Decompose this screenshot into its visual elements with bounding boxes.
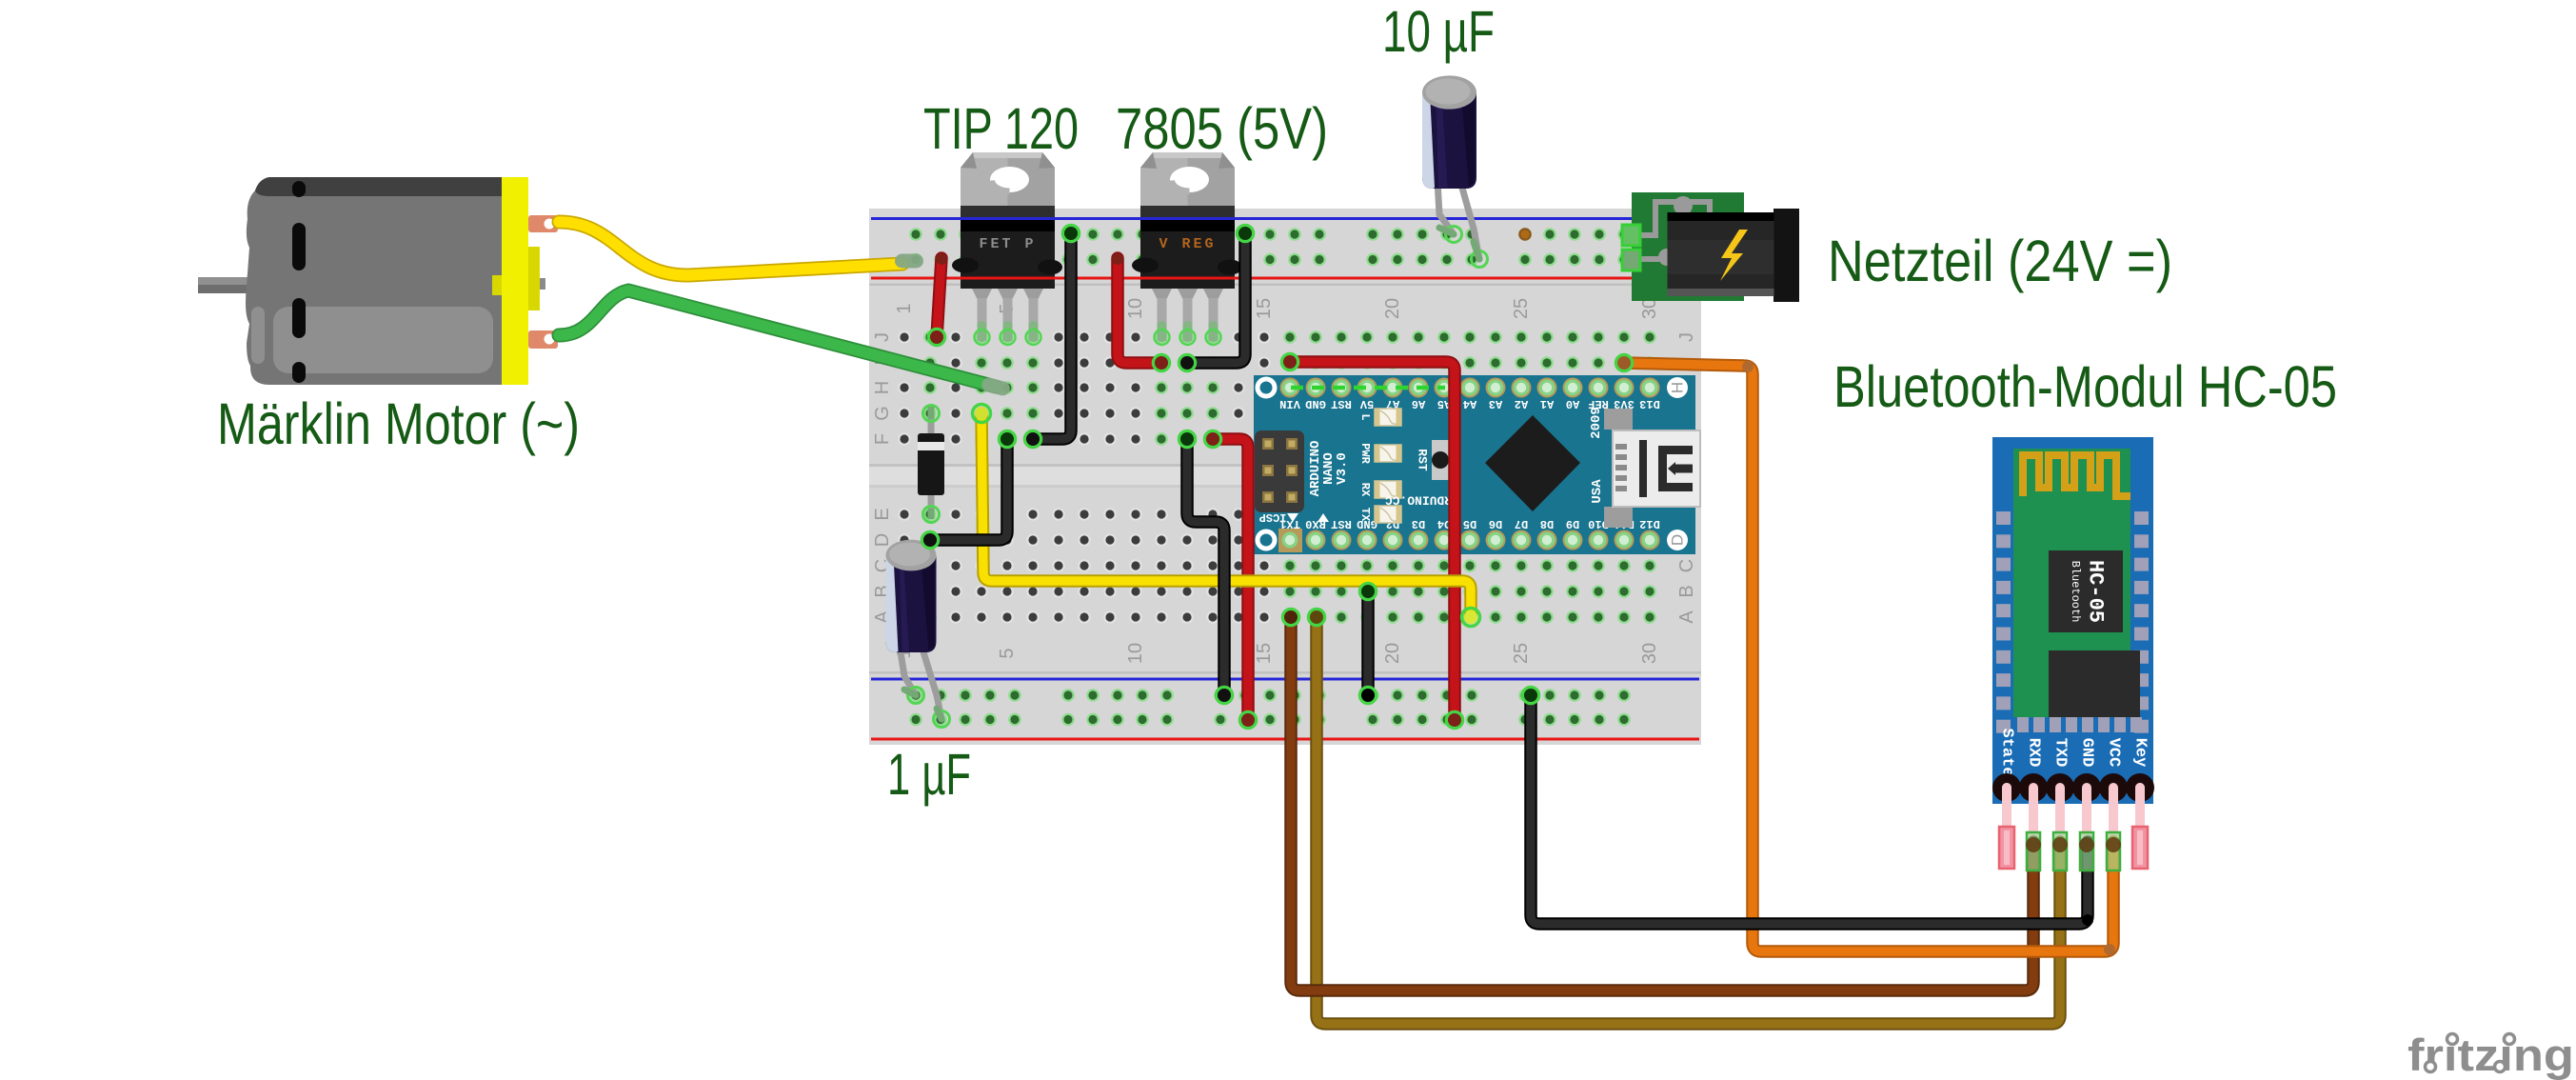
wire black top rail to I12 [1179,226,1254,371]
svg-text:Key: Key [2131,738,2150,768]
wire red F13 to bottom rail [1205,431,1257,729]
svg-text:RXD: RXD [2025,738,2043,768]
svg-text:D8: D8 [1540,517,1554,530]
wire red I16 to bottom rail [1282,354,1463,729]
svg-text:C: C [1676,559,1697,572]
svg-text:TIP 120: TIP 120 [923,96,1079,161]
motor M1 Maerklin [198,177,558,385]
wire black B19 to bottom rail [1360,584,1377,704]
svg-text:Netzteil (24V =): Netzteil (24V =) [1828,229,2172,293]
svg-text:ICSP: ICSP [1259,510,1287,524]
label Bluetooth-Modul HC-05 [1833,354,2337,419]
svg-text:10 µF: 10 µF [1382,0,1495,64]
wire black F5 to D2 [922,431,1016,549]
svg-text:G: G [872,406,893,421]
svg-text:PWR: PWR [1358,443,1372,464]
node highlighted hole top rail [1518,228,1532,241]
svg-text:25: 25 [1511,643,1532,664]
svg-text:VIN: VIN [1279,397,1300,410]
wire black F12 to bottom rail [1179,431,1233,704]
svg-text:3V3: 3V3 [1614,397,1635,410]
svg-text:1: 1 [894,303,915,313]
label 1 uF [887,742,971,807]
svg-text:25: 25 [1511,298,1532,319]
regulator U2 7805 [1132,152,1242,345]
net ratsnest dashed green VIN-A5 [1291,386,1445,390]
svg-text:D13: D13 [1639,397,1660,410]
wire red rail to J2 [929,253,948,346]
svg-text:5: 5 [997,648,1018,658]
svg-text:20: 20 [1382,643,1403,664]
svg-text:D: D [872,533,893,547]
svg-text:FET P: FET P [979,236,1036,252]
wire yellow motor to top rail [559,222,923,275]
svg-text:H: H [1669,382,1687,393]
svg-text:A3: A3 [1489,397,1502,410]
svg-text:L: L [1358,413,1372,420]
svg-text:7805 (5V): 7805 (5V) [1116,96,1328,161]
svg-text:RST: RST [1331,397,1352,410]
svg-text:A4: A4 [1463,397,1476,410]
svg-text:GND: GND [2078,738,2096,768]
wire orange VCC [1616,355,2116,956]
svg-text:Märklin Motor (~): Märklin Motor (~) [217,391,580,456]
svg-text:V REG: V REG [1159,236,1216,252]
svg-text:30: 30 [1639,298,1660,319]
svg-text:D12: D12 [1639,517,1660,530]
svg-text:RX: RX [1358,483,1372,497]
label TIP 120 [923,96,1079,161]
svg-text:A1: A1 [1540,397,1554,410]
svg-text:20: 20 [1382,298,1403,319]
svg-text:RDUINO.CC: RDUINO.CC [1385,493,1452,508]
svg-text:E: E [872,508,893,520]
label 10 uF [1382,0,1495,64]
svg-text:H: H [872,381,893,394]
svg-text:A: A [1676,610,1697,624]
svg-text:B: B [1676,585,1697,597]
wire black bottom rail to GND HC-05 [1523,688,2094,927]
svg-text:D5: D5 [1463,517,1476,530]
svg-text:GND: GND [1305,397,1326,410]
svg-text:A2: A2 [1515,397,1528,410]
svg-text:J: J [1676,332,1697,342]
fritzing watermark [2408,1030,2574,1080]
diode D1 [918,406,944,523]
svg-text:30: 30 [1639,643,1660,664]
bluetooth module U3 HC-05 [1992,437,2154,869]
svg-text:10: 10 [1125,643,1146,664]
wire brown RXD [1283,610,2034,991]
wire top rail lines overlay [871,217,1632,280]
transistor Q1 TIP120 [952,152,1062,345]
capacitor C2 1uF [886,540,937,652]
svg-text:Bluetooth-Modul HC-05: Bluetooth-Modul HC-05 [1833,354,2337,419]
svg-text:D7: D7 [1515,517,1528,530]
svg-text:RST: RST [1331,517,1352,530]
capacitor C2 1uF legs [900,646,950,728]
power jack J1 [1622,192,1799,302]
svg-text:5V: 5V [1359,397,1374,410]
svg-text:F: F [872,433,893,445]
node HC-05 wire end connectors [2026,832,2121,870]
label Netzteil [1828,229,2172,293]
label 7805 (5V) [1116,96,1328,161]
capacitor C1 10uF [1422,75,1476,189]
svg-text:10: 10 [1125,298,1146,319]
svg-text:RST: RST [1416,449,1430,471]
svg-text:D6: D6 [1489,517,1502,530]
wire olive TXD [1309,610,2061,1025]
svg-text:D9: D9 [1566,517,1579,530]
wire green motor to H5 [559,290,1011,397]
svg-text:15: 15 [1254,298,1275,319]
wire black top rail to F6 [1025,226,1080,448]
svg-text:VCC: VCC [2105,738,2123,768]
breadboard [869,209,1701,745]
svg-text:TXD: TXD [2051,738,2070,768]
arduino nano U1 [1254,375,1700,554]
wire yellow G4 to A23 [973,405,1480,627]
svg-text:15: 15 [1254,643,1275,664]
svg-text:TX: TX [1358,508,1372,522]
svg-text:A0: A0 [1566,397,1579,410]
capacitor C1 10uF legs [1437,181,1488,268]
svg-text:J: J [872,332,893,342]
svg-text:Bluetooth: Bluetooth [2069,561,2082,623]
wire red rail to I11 [1112,253,1170,371]
svg-text:V3.0: V3.0 [1335,452,1350,485]
svg-text:State: State [1998,728,2016,776]
svg-text:D3: D3 [1412,517,1425,530]
svg-text:A6: A6 [1412,397,1425,410]
label Maerklin Motor [217,391,580,456]
svg-text:2009: 2009 [1589,407,1604,439]
svg-text:D: D [1669,534,1687,546]
svg-text:1 µF: 1 µF [887,742,971,807]
svg-text:HC-05: HC-05 [2084,560,2108,623]
svg-text:USA: USA [1590,479,1605,504]
